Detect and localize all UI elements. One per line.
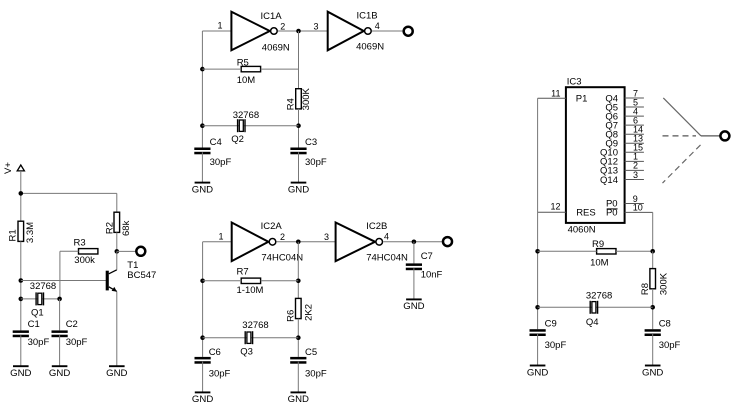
svg-text:R9: R9	[592, 239, 604, 250]
svg-text:GND: GND	[288, 394, 309, 405]
svg-text:68k: 68k	[121, 220, 132, 236]
svg-text:74HC04N: 74HC04N	[261, 252, 303, 263]
svg-text:GND: GND	[403, 301, 424, 312]
svg-text:3.3M: 3.3M	[25, 222, 36, 243]
svg-text:32768: 32768	[242, 320, 268, 331]
svg-text:32768: 32768	[233, 110, 259, 121]
svg-text:4: 4	[375, 21, 380, 31]
svg-text:C5: C5	[305, 347, 317, 358]
svg-text:C4: C4	[210, 137, 222, 148]
svg-text:30pF: 30pF	[545, 340, 567, 351]
svg-text:GND: GND	[642, 367, 663, 378]
svg-text:10M: 10M	[590, 257, 609, 268]
svg-text:IC1A: IC1A	[261, 11, 283, 22]
svg-text:IC2B: IC2B	[366, 221, 387, 232]
svg-text:R6: R6	[285, 310, 296, 322]
svg-text:C9: C9	[545, 319, 557, 330]
svg-text:2K2: 2K2	[304, 304, 315, 321]
svg-text:GND: GND	[10, 368, 31, 379]
svg-text:BC547: BC547	[127, 270, 156, 281]
svg-text:11: 11	[551, 88, 560, 98]
svg-text:R7: R7	[237, 267, 249, 278]
svg-text:Q4: Q4	[586, 317, 599, 328]
svg-text:300K: 300K	[659, 272, 670, 295]
svg-text:10: 10	[633, 203, 643, 213]
svg-text:30pF: 30pF	[305, 157, 327, 168]
svg-text:300k: 300k	[74, 255, 95, 266]
svg-text:GND: GND	[527, 367, 548, 378]
svg-text:R3: R3	[74, 238, 86, 249]
svg-text:R5: R5	[237, 58, 249, 69]
svg-text:3: 3	[633, 170, 638, 180]
svg-text:Q2: Q2	[231, 134, 244, 145]
svg-text:30pF: 30pF	[659, 340, 681, 351]
svg-text:4: 4	[384, 232, 389, 242]
svg-text:30pF: 30pF	[28, 337, 50, 348]
svg-text:10M: 10M	[237, 75, 256, 86]
svg-text:P1: P1	[576, 94, 588, 105]
svg-text:3: 3	[324, 232, 329, 242]
svg-text:10nF: 10nF	[421, 269, 443, 280]
svg-text:GND: GND	[192, 184, 213, 195]
svg-text:V+: V+	[3, 162, 14, 174]
svg-text:R8: R8	[640, 283, 651, 295]
svg-text:GND: GND	[49, 368, 70, 379]
svg-text:GND: GND	[288, 184, 309, 195]
svg-text:2: 2	[280, 232, 285, 242]
svg-text:1: 1	[217, 21, 222, 31]
svg-text:R2: R2	[104, 222, 115, 234]
svg-text:IC3: IC3	[567, 77, 582, 88]
svg-text:4060N: 4060N	[568, 224, 596, 235]
svg-text:32768: 32768	[586, 291, 612, 302]
svg-text:4069N: 4069N	[262, 43, 290, 54]
svg-text:32768: 32768	[30, 281, 56, 292]
svg-text:C7: C7	[421, 251, 433, 262]
svg-text:Q1: Q1	[31, 307, 44, 318]
svg-text:RES: RES	[576, 208, 596, 219]
svg-text:300K: 300K	[301, 87, 312, 110]
svg-text:30pF: 30pF	[305, 368, 327, 379]
svg-text:GND: GND	[106, 368, 127, 379]
svg-text:C3: C3	[305, 137, 317, 148]
svg-text:R1: R1	[8, 229, 19, 241]
svg-text:12: 12	[550, 202, 560, 212]
svg-text:1-10M: 1-10M	[237, 285, 264, 296]
svg-text:4069N: 4069N	[356, 42, 384, 53]
svg-text:1: 1	[218, 231, 223, 241]
svg-text:30pF: 30pF	[209, 368, 231, 379]
svg-text:IC2A: IC2A	[261, 221, 283, 232]
svg-text:C8: C8	[659, 319, 671, 330]
svg-text:2: 2	[280, 22, 285, 32]
svg-text:GND: GND	[192, 394, 213, 405]
svg-text:3: 3	[313, 21, 318, 31]
svg-text:30pF: 30pF	[66, 337, 88, 348]
svg-text:Q3: Q3	[240, 347, 253, 358]
svg-text:C2: C2	[66, 319, 78, 330]
svg-text:30pF: 30pF	[210, 157, 232, 168]
svg-text:C1: C1	[28, 319, 40, 330]
svg-text:Q14: Q14	[600, 175, 618, 186]
svg-text:C6: C6	[209, 347, 221, 358]
svg-text:R4: R4	[285, 98, 296, 110]
svg-text:74HC04N: 74HC04N	[366, 252, 408, 263]
